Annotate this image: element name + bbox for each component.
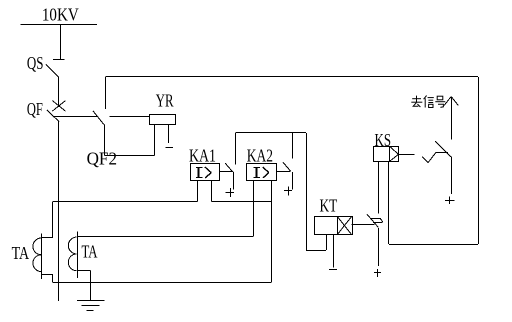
- svg-text:QF2: QF2: [87, 148, 117, 168]
- svg-text:QS: QS: [27, 53, 44, 73]
- svg-text:TA: TA: [12, 243, 30, 263]
- svg-text:10KV: 10KV: [42, 4, 79, 24]
- svg-text:YR: YR: [156, 91, 174, 111]
- svg-text:KS: KS: [375, 130, 392, 150]
- svg-text:QF: QF: [27, 99, 43, 119]
- svg-text:TA: TA: [82, 242, 98, 262]
- svg-text:KA1: KA1: [189, 146, 216, 166]
- svg-text:KA2: KA2: [247, 146, 273, 166]
- svg-text:KT: KT: [320, 196, 338, 216]
